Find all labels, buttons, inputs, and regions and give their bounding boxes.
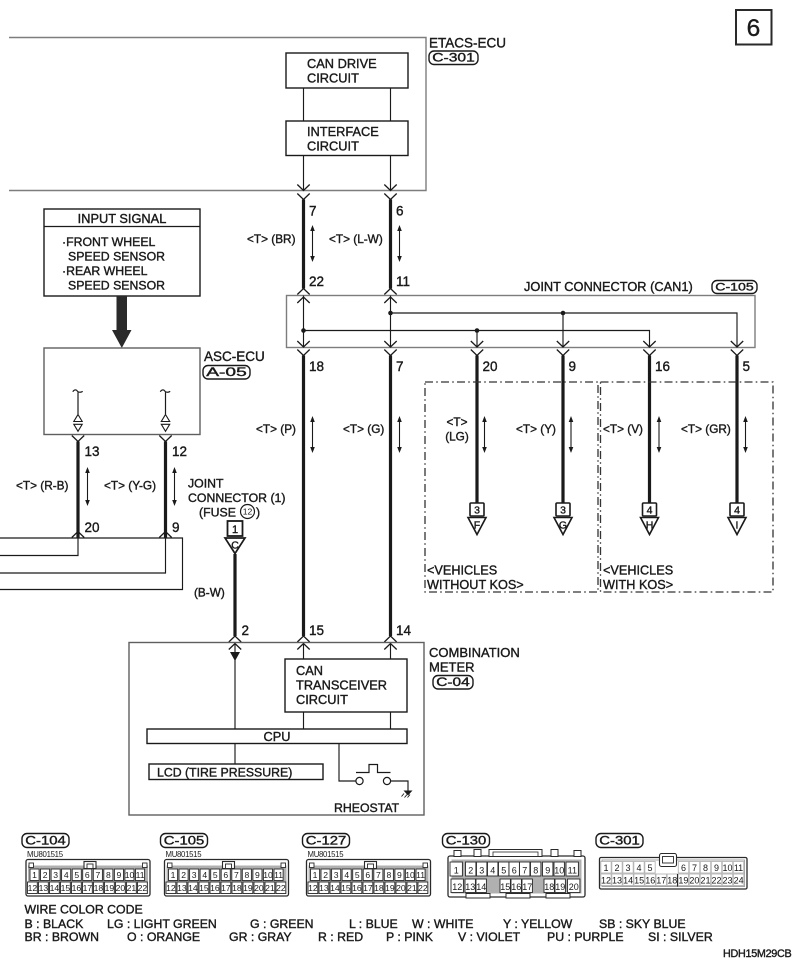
joint connector CAN1 box [287,296,756,348]
svg-text:21: 21 [407,883,417,893]
svg-text:5: 5 [74,870,79,880]
CAN transceiver circuit block [285,659,407,712]
svg-text:MU801515: MU801515 [27,850,64,859]
svg-text:17: 17 [83,883,93,893]
svg-text:18: 18 [374,883,384,893]
svg-text:13: 13 [465,882,475,892]
connector chevron below ETACS pin 7 [297,194,309,200]
svg-text:P : PINK: P : PINK [386,930,434,944]
svg-text:17: 17 [522,882,532,892]
wire (G) joint pin7 to meter pin14 [389,356,392,637]
wire (BR) pin7 to joint pin22 [302,200,305,289]
svg-text:H: H [646,520,654,532]
wire interface to ETACS pin 6 [390,156,392,191]
svg-text:9: 9 [545,866,550,876]
direction arrow Y-G [172,467,177,506]
connector triangle F [468,518,486,535]
combination meter box [129,643,424,816]
terminal box 3 on wire [556,503,570,516]
svg-text:8: 8 [533,866,538,876]
C-301 top tab [660,854,677,867]
svg-text:19: 19 [385,883,395,893]
svg-text:11: 11 [734,863,743,873]
svg-text:5: 5 [743,359,751,374]
terminal triangle down [74,424,82,431]
svg-text:1: 1 [171,870,176,880]
chevron joint bottom below pin 20 [471,350,483,356]
direction arrow R-B [85,467,90,506]
svg-text:16: 16 [645,875,655,885]
svg-text:SB : SKY BLUE: SB : SKY BLUE [599,917,686,931]
svg-text:R : RED: R : RED [318,930,363,944]
svg-text:20: 20 [116,883,126,893]
connector label C-301 [429,51,478,65]
svg-text:23: 23 [723,875,733,885]
svg-text:3: 3 [474,505,480,517]
svg-text:6: 6 [681,863,686,873]
svg-text:MU801515: MU801515 [308,850,345,859]
svg-text:5: 5 [501,866,506,876]
svg-text:C-04: C-04 [436,675,470,689]
svg-text:B : BLACK: B : BLACK [25,917,85,931]
svg-text:<T> (BR): <T> (BR) [247,232,296,246]
svg-text:<T> (L-W): <T> (L-W) [329,232,383,246]
svg-text:12: 12 [243,507,253,517]
svg-text:15: 15 [341,883,351,893]
svg-text:16: 16 [72,883,82,893]
svg-text:12: 12 [166,883,176,893]
chevron at bus crossing wire R-B [72,532,84,538]
svg-text:8: 8 [106,870,111,880]
wire R-B continuation to left edge [0,538,78,556]
terminal box 4 on wire [643,503,657,516]
svg-text:CONNECTOR (1): CONNECTOR (1) [188,491,285,505]
svg-text:14: 14 [330,883,340,893]
svg-text:18: 18 [309,359,324,374]
svg-text:22: 22 [711,875,721,885]
junction CAN-H branch pin 9 [561,311,566,316]
svg-text:19: 19 [243,883,253,893]
chevron joint bottom above pin 18 [297,341,309,347]
svg-text:<T> (Y-G): <T> (Y-G) [104,479,156,493]
svg-text:C-301: C-301 [599,834,640,848]
terminal box 3 on wire [470,503,484,516]
LCD tire pressure block [149,764,323,780]
svg-text:<T> (G): <T> (G) [343,422,384,436]
svg-text:22: 22 [276,883,286,893]
svg-text:14: 14 [623,875,633,885]
svg-text:1: 1 [32,870,37,880]
svg-text:JOINT CONNECTOR (CAN1): JOINT CONNECTOR (CAN1) [524,279,693,294]
svg-text:TRANSCEIVER: TRANSCEIVER [296,678,387,693]
svg-text:1: 1 [603,863,608,873]
svg-text:4: 4 [344,870,349,880]
svg-text:11: 11 [416,870,425,880]
svg-text:): ) [256,506,260,520]
svg-text:17: 17 [656,875,666,885]
svg-text:11: 11 [136,870,145,880]
svg-text:CPU: CPU [263,729,290,744]
svg-text:LG : LIGHT GREEN: LG : LIGHT GREEN [107,917,217,931]
svg-text:12: 12 [452,882,462,892]
svg-text:14: 14 [50,883,60,893]
direction arrow Y [569,416,574,453]
svg-text:CIRCUIT: CIRCUIT [296,692,348,707]
wire bus to left edge (top) [0,538,183,590]
chevron below meter pin 14 inner [384,644,396,650]
branch wire to pin 20 [476,331,478,348]
svg-text:V : VIOLET: V : VIOLET [458,930,521,944]
input signal divider [44,226,200,228]
svg-text:1: 1 [454,866,459,876]
svg-text:19: 19 [678,875,688,885]
svg-text:14: 14 [476,882,486,892]
svg-text:2: 2 [242,623,250,638]
interface circuit block U2 [286,121,408,156]
branch wire to pin 9 [562,313,564,348]
svg-text:2: 2 [43,870,48,880]
wire (P) joint pin18 to meter pin15 [302,356,305,637]
svg-text:·REAR WHEEL: ·REAR WHEEL [62,264,148,278]
svg-text:20: 20 [569,882,579,892]
wire (GR) joint pin5 [735,356,738,504]
svg-text:18: 18 [544,882,554,892]
terminal triangle down [161,424,169,431]
rheostat switch contact right [383,777,390,784]
svg-text:16: 16 [655,359,670,374]
chevron at bus crossing wire Y-G [159,532,171,538]
svg-text:2: 2 [323,870,328,880]
svg-text:14: 14 [188,883,198,893]
svg-text:·FRONT WHEEL: ·FRONT WHEEL [62,235,156,249]
svg-text:METER: METER [429,660,475,675]
svg-text:16: 16 [511,882,521,892]
vehicles without KOS dashed box [425,382,598,592]
svg-text:9: 9 [255,870,260,880]
svg-text:RHEOSTAT: RHEOSTAT [334,801,400,815]
svg-text:13: 13 [85,444,100,459]
svg-text:11: 11 [396,274,410,289]
svg-text:21: 21 [265,883,275,893]
wheel speed sensor pickup symbol [73,390,83,392]
chevron joint bottom above pin 20 [471,341,483,347]
chevron above meter pin 2 [229,636,241,642]
wire pin15 to CAN transceiver [303,644,305,660]
svg-text:WITHOUT KOS>: WITHOUT KOS> [427,578,524,592]
svg-text:ASC-ECU: ASC-ECU [204,349,265,364]
svg-text:SPEED SENSOR: SPEED SENSOR [68,250,165,264]
svg-text:7: 7 [396,359,404,374]
wire (L-W) pin6 to joint pin11 [389,200,392,289]
chevron joint bottom below pin 18 [297,350,309,356]
connector label C-301 [596,834,643,848]
wire CPU to rheostat [339,744,356,782]
svg-text:13: 13 [39,883,49,893]
chevron joint bottom above pin 7 [384,341,396,347]
chevron joint top pin 11 inner [384,297,396,303]
chevron below meter pin 2 inner [229,644,241,650]
svg-text:10: 10 [554,866,564,876]
svg-text:3: 3 [192,870,197,880]
wheel speed sensor pickup symbol [160,390,170,392]
svg-text:C-105: C-105 [164,834,205,848]
chevron above meter pin 15 [297,636,309,642]
svg-text:6: 6 [396,204,404,219]
connector label C-105 [712,281,757,294]
svg-text:MU801515: MU801515 [166,850,203,859]
svg-text:9: 9 [172,520,180,535]
svg-text:G: G [559,520,567,532]
svg-text:O : ORANGE: O : ORANGE [127,930,200,944]
svg-text:ETACS-ECU: ETACS-ECU [429,36,506,51]
svg-text:9: 9 [117,870,122,880]
svg-text:13: 13 [177,883,187,893]
direction arrow P [310,416,315,453]
connector triangle H [641,518,659,535]
svg-text:20: 20 [483,359,498,374]
direction arrow V [657,416,662,453]
svg-text:CAN DRIVE: CAN DRIVE [307,56,377,71]
svg-text:6: 6 [223,870,228,880]
wire CAN-L through joint [303,296,305,348]
wire transceiver to CPU (right) [390,712,392,729]
svg-text:10: 10 [125,870,135,880]
svg-text:C: C [231,540,239,552]
svg-text:13: 13 [319,883,329,893]
connector chevron above joint box pin 22 [297,289,309,295]
svg-text:L : BLUE: L : BLUE [349,917,398,931]
svg-text:6: 6 [512,866,517,876]
svg-text:C-301: C-301 [432,51,475,65]
chevron joint bottom above pin 9 [557,341,569,347]
svg-text:G : GREEN: G : GREEN [250,917,314,931]
svg-text:<T> (P): <T> (P) [256,422,296,436]
direction arrow BR [310,225,315,262]
connector chevron above joint box pin 11 [384,289,396,295]
direction arrow LG [482,416,487,453]
rheostat switch contact left [356,777,363,784]
connector label C-130 [443,834,490,848]
junction CAN-H at pin11 wire [388,311,393,316]
ASC-ECU box [44,348,200,435]
svg-text:C-105: C-105 [715,282,754,294]
svg-text:C-127: C-127 [306,834,347,848]
svg-text:4: 4 [647,505,653,517]
svg-text:24: 24 [734,875,744,885]
svg-text:12: 12 [308,883,318,893]
svg-text:11: 11 [568,866,577,876]
wire pin14 to CAN transceiver [390,644,392,660]
svg-text:8: 8 [703,863,708,873]
svg-text:6: 6 [365,870,370,880]
svg-text:21: 21 [700,875,710,885]
wire (Y-G) ASC pin12 [164,442,167,539]
wire rheostat to chassis ground [391,781,408,791]
wire (Y) joint pin9 [561,356,564,504]
svg-text:3: 3 [479,866,484,876]
chevron joint bottom below pin 16 [643,350,655,356]
svg-text:20: 20 [85,520,100,535]
svg-text:3: 3 [560,505,566,517]
svg-text:1: 1 [313,870,318,880]
chevron above meter pin 14 [384,636,396,642]
svg-text:SPEED SENSOR: SPEED SENSOR [68,279,165,293]
ETACS-ECU box (open at left) [9,38,426,191]
connector triangle G [554,518,572,535]
svg-text:22: 22 [138,883,148,893]
svg-text:16: 16 [210,883,220,893]
svg-text:3: 3 [334,870,339,880]
svg-text:INPUT SIGNAL: INPUT SIGNAL [78,211,167,226]
svg-text:17: 17 [363,883,373,893]
svg-text:INTERFACE: INTERFACE [307,124,379,139]
svg-text:CIRCUIT: CIRCUIT [307,71,359,86]
wire transceiver to CPU (left) [303,712,305,729]
svg-text:18: 18 [232,883,242,893]
vehicles with KOS dashed box [601,382,774,592]
svg-text:18: 18 [94,883,104,893]
svg-text:12: 12 [172,444,187,459]
svg-text:C-130: C-130 [446,834,487,848]
rheostat pushbutton actuator [356,765,391,773]
svg-text:(LG): (LG) [445,430,469,444]
svg-text:20: 20 [689,875,699,885]
C-301 divider [677,874,679,887]
connector label C-127 [303,834,350,848]
wire interface to ETACS pin 7 [303,156,305,191]
CAN drive circuit block U1 [286,53,408,88]
connector chevron below ETACS pin 6 [384,194,396,200]
terminal box 4 on wire [730,503,744,516]
connector triangle I [728,518,746,535]
page number box 6 [736,10,772,45]
svg-text:12: 12 [28,883,38,893]
svg-text:<T> (Y): <T> (Y) [516,422,556,436]
chevron joint bottom above pin 5 [731,341,743,347]
svg-text:5: 5 [647,863,652,873]
svg-text:I: I [736,520,739,532]
svg-text:WITH KOS>: WITH KOS> [603,578,673,592]
svg-text:3: 3 [53,870,58,880]
wire CPU to LCD [234,744,236,765]
svg-text:22: 22 [309,274,324,289]
connector label C-105 [161,834,208,848]
terminal triangle up [74,415,82,422]
chevron joint top pin 22 inner [297,297,309,303]
svg-text:19: 19 [105,883,115,893]
junction CAN-L at pin22 wire [301,328,306,333]
connector C-130 body [448,856,585,897]
svg-text:BR : BROWN: BR : BROWN [25,930,99,944]
svg-text:15: 15 [634,875,644,885]
svg-text:2: 2 [468,866,473,876]
svg-text:GR : GRAY: GR : GRAY [229,930,292,944]
CAN-L bus [304,331,650,348]
big arrow input signal to ASC-ECU [112,296,132,348]
svg-text:CAN: CAN [296,663,323,678]
svg-text:14: 14 [396,623,412,638]
connector triangle C [225,538,245,554]
svg-text:15: 15 [61,883,71,893]
svg-text:21: 21 [127,883,137,893]
svg-text:7: 7 [95,870,100,880]
input signal box [44,209,200,296]
direction arrow GR [743,416,748,453]
svg-text:9: 9 [397,870,402,880]
svg-text:<VEHICLES: <VEHICLES [603,564,673,578]
svg-text:22: 22 [418,883,428,893]
svg-text:<T> (GR): <T> (GR) [681,422,731,436]
chevron joint bottom below pin 5 [731,350,743,356]
CPU block [147,729,407,744]
wire Y-G continuation to left edge [0,538,166,573]
svg-text:12: 12 [601,875,611,885]
svg-text:PU : PURPLE: PU : PURPLE [547,930,624,944]
svg-text:13: 13 [612,875,622,885]
terminator arrow B-W inside meter [230,652,240,661]
wire (V) joint pin16 [648,356,651,504]
svg-text:4: 4 [64,870,69,880]
svg-text:1: 1 [232,524,238,536]
svg-text:CIRCUIT: CIRCUIT [307,139,359,154]
svg-text:7: 7 [309,204,317,219]
svg-text:11: 11 [274,870,283,880]
svg-text:(B-W): (B-W) [194,586,225,600]
svg-text:6: 6 [85,870,90,880]
CAN-H bus [391,313,738,348]
chevron joint bottom below pin 7 [384,350,396,356]
svg-text:10: 10 [722,863,732,873]
svg-text:HDH15M29CB: HDH15M29CB [723,948,792,960]
svg-text:8: 8 [245,870,250,880]
svg-text:LCD (TIRE PRESSURE): LCD (TIRE PRESSURE) [157,766,292,780]
svg-text:6: 6 [747,15,761,42]
svg-text:WIRE COLOR CODE: WIRE COLOR CODE [25,903,143,917]
svg-text:COMBINATION: COMBINATION [429,645,520,660]
svg-text:(FUSE: (FUSE [199,506,236,520]
svg-text:SI : SILVER: SI : SILVER [648,930,713,944]
wire CAN-H through joint [390,296,392,348]
wire B-W to CPU [234,644,236,730]
svg-text:4: 4 [734,505,740,517]
svg-text:15: 15 [500,882,510,892]
svg-text:4: 4 [490,866,495,876]
svg-text:9: 9 [714,863,719,873]
svg-text:2: 2 [181,870,186,880]
wire CAN drive to interface (right) [390,88,392,121]
svg-text:<T>: <T> [447,415,468,429]
wire (R-B) ASC pin13 [76,442,79,539]
svg-text:JOINT: JOINT [188,477,224,491]
wire (B-W) joint1 to meter pin2 [233,554,236,636]
svg-text:15: 15 [199,883,209,893]
svg-text:3: 3 [625,863,630,873]
svg-text:F: F [474,520,480,532]
svg-text:<T> (R-B): <T> (R-B) [16,479,69,493]
joint connector 1 terminal box 1 [228,521,243,536]
svg-text:10: 10 [263,870,273,880]
svg-text:10: 10 [405,870,415,880]
svg-text:18: 18 [667,875,677,885]
svg-text:5: 5 [355,870,360,880]
svg-text:2: 2 [614,863,619,873]
junction CAN-L branch pin 20 [475,328,480,333]
svg-text:7: 7 [376,870,381,880]
svg-text:20: 20 [396,883,406,893]
svg-text:7: 7 [234,870,239,880]
svg-text:16: 16 [352,883,362,893]
wire CAN drive to interface (left) [303,88,305,121]
